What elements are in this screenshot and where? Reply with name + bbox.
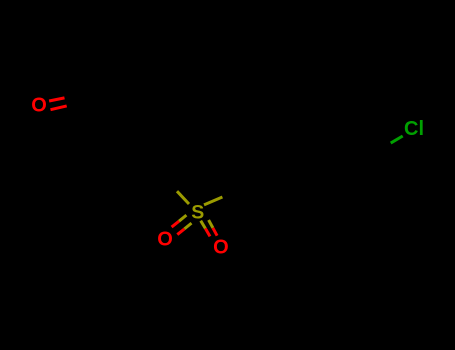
left S=O double bond, line 2 red half xyxy=(177,229,184,235)
right S=O double bond, line 2 red half xyxy=(213,228,217,236)
svg-text:O: O xyxy=(31,95,47,117)
right S=O double bond, line 1 olive half xyxy=(201,221,206,229)
svg-text:Cl: Cl xyxy=(404,118,424,140)
bond stub to Cl (green half of C-Cl bond) xyxy=(391,136,403,143)
svg-text:O: O xyxy=(213,236,229,258)
left S=O double bond, line 1 olive half xyxy=(179,215,186,221)
bond stub from S up-right (olive half of C-S bond) xyxy=(204,197,222,205)
svg-text:O: O xyxy=(157,228,173,250)
left S=O double bond, line 1 red half xyxy=(172,221,179,227)
C=O double bond, lower red half-line xyxy=(51,106,67,110)
bond stub from S up-left (olive half of C-S bond) xyxy=(177,191,189,204)
right S=O double bond, line 2 olive half xyxy=(209,220,213,228)
right S=O double bond, line 1 red half xyxy=(205,229,210,237)
C=O double bond, upper red half-line xyxy=(49,98,64,101)
left S=O double bond, line 2 olive half xyxy=(184,223,191,229)
svg-text:S: S xyxy=(191,202,204,224)
